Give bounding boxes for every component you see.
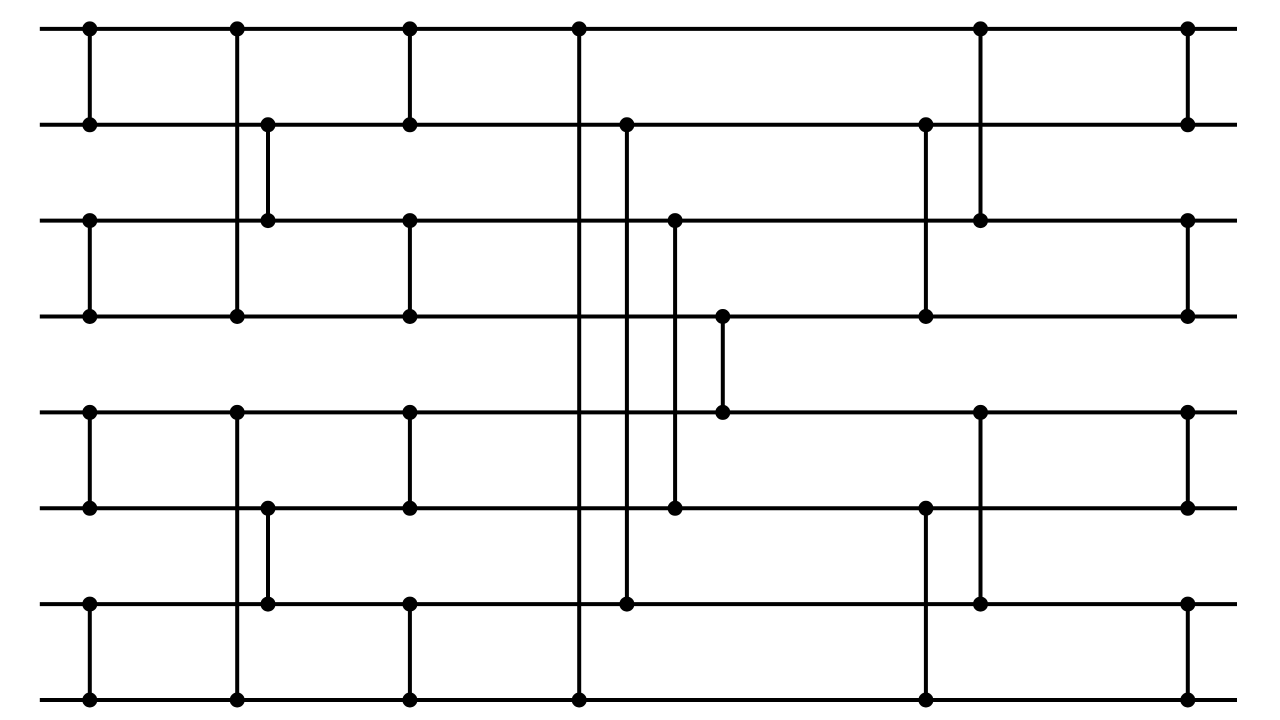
comparator stage 3: wire 3 to wire 4 (vertical link with junction dots) <box>402 213 417 324</box>
wire 6 (horizontal rail 6) <box>40 506 1237 510</box>
comparator stage 6: wire 5 to wire 6 (vertical link with junction dots) <box>1180 405 1195 516</box>
comparator stage 2: wire 1 to wire 4 (vertical link with junction dots) <box>230 21 245 324</box>
comparator stage 1: wire 5 to wire 6 (vertical link with junction dots) <box>82 405 97 516</box>
comparator stage 6: wire 3 to wire 4 (vertical link with junction dots) <box>1180 213 1195 324</box>
comparator stage 6: wire 7 to wire 8 (vertical link with junction dots) <box>1180 597 1195 708</box>
comparator stage 6: wire 1 to wire 2 (vertical link with junction dots) <box>1180 21 1195 132</box>
wire 5 (horizontal rail 5) <box>40 410 1237 414</box>
wire 3 (horizontal rail 3) <box>40 219 1237 223</box>
comparator stage 3: wire 7 to wire 8 (vertical link with junction dots) <box>402 597 417 708</box>
comparator stage 1: wire 7 to wire 8 (vertical link with junction dots) <box>82 597 97 708</box>
comparator stage 4: wire 1 to wire 8 (vertical link with junction dots) <box>572 21 587 707</box>
comparator stage 4: wire 3 to wire 6 (vertical link with junction dots) <box>668 213 683 516</box>
comparator stage 1: wire 1 to wire 2 (vertical link with junction dots) <box>82 21 97 132</box>
comparator stage 3: wire 1 to wire 2 (vertical link with junction dots) <box>402 21 417 132</box>
comparator stage 2: wire 5 to wire 8 (vertical link with junction dots) <box>230 405 245 708</box>
wire 8 (horizontal rail 8) <box>40 698 1237 702</box>
wire 7 (horizontal rail 7) <box>40 602 1237 606</box>
comparator stage 2: wire 6 to wire 7 (vertical link with junction dots) <box>261 501 276 612</box>
comparator stage 5: wire 2 to wire 4 (vertical link with junction dots) <box>918 117 933 324</box>
comparator stage 2: wire 2 to wire 3 (vertical link with junction dots) <box>261 117 276 228</box>
comparator stage 1: wire 3 to wire 4 (vertical link with junction dots) <box>82 213 97 324</box>
comparator stage 3: wire 5 to wire 6 (vertical link with junction dots) <box>402 405 417 516</box>
wire 2 (horizontal rail 2) <box>40 123 1237 127</box>
comparator stage 5: wire 1 to wire 3 (vertical link with junction dots) <box>973 21 988 228</box>
comparator stage 5: wire 5 to wire 7 (vertical link with junction dots) <box>973 405 988 612</box>
comparator stage 5: wire 6 to wire 8 (vertical link with junction dots) <box>918 501 933 708</box>
wire 4 (horizontal rail 4) <box>40 315 1237 319</box>
wire 1 (horizontal rail 1) <box>40 27 1237 31</box>
comparator stage 4: wire 4 to wire 5 (vertical link with junction dots) <box>715 309 730 420</box>
comparator stage 4: wire 2 to wire 7 (vertical link with junction dots) <box>619 117 634 611</box>
